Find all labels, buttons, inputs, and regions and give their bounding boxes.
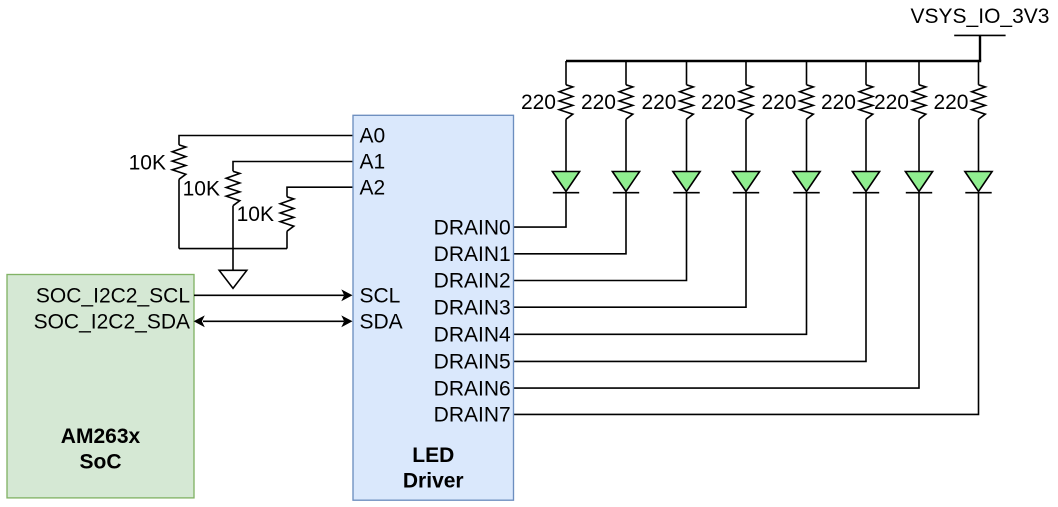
wire rail to resistor R6	[865, 61, 867, 85]
wire resistor R10 to ground rail	[232, 206, 234, 249]
ground	[219, 270, 247, 288]
resistor R5 220	[800, 85, 814, 119]
wire resistor R6 to LED D6	[865, 119, 867, 171]
resistor R4 220	[739, 85, 753, 119]
svg-text:220: 220	[641, 91, 676, 114]
wire LED D5 cathode to DRAIN4	[514, 193, 807, 335]
LED D3	[673, 172, 700, 193]
LED D7	[905, 172, 932, 193]
resistor R9 10K	[172, 145, 186, 179]
wire rail to resistor R2	[625, 61, 627, 85]
svg-text:SOC_I2C2_SDA: SOC_I2C2_SDA	[34, 311, 190, 334]
svg-text:DRAIN2: DRAIN2	[434, 270, 511, 293]
LED D2	[612, 172, 639, 193]
wire LED D8 cathode to DRAIN7	[514, 193, 979, 415]
resistor R6 220	[859, 85, 873, 119]
wire A0 to resistor R9	[179, 136, 353, 145]
svg-text:LED: LED	[412, 444, 454, 467]
wire SOC_I2C2_SDA to SDA (bidirectional)	[194, 315, 353, 327]
svg-text:220: 220	[874, 91, 909, 114]
wire LED D3 cathode to DRAIN2	[514, 193, 687, 281]
svg-text:SDA: SDA	[360, 311, 403, 334]
LED D1	[552, 172, 579, 193]
wire resistor R1 to LED D1	[565, 119, 567, 171]
LED D6	[852, 172, 879, 193]
wire A1 to resistor R10	[233, 162, 353, 172]
wire resistor R11 to ground rail	[286, 231, 288, 248]
svg-text:220: 220	[581, 91, 616, 114]
svg-text:A1: A1	[360, 151, 386, 174]
svg-text:220: 220	[761, 91, 796, 114]
svg-text:220: 220	[701, 91, 736, 114]
resistor R2 220	[619, 85, 633, 119]
svg-text:DRAIN1: DRAIN1	[434, 243, 511, 266]
resistor R10 10K	[226, 171, 240, 205]
svg-text:Driver: Driver	[403, 469, 464, 492]
svg-text:DRAIN4: DRAIN4	[434, 324, 511, 347]
svg-text:DRAIN6: DRAIN6	[434, 377, 511, 400]
wire LED D4 cathode to DRAIN3	[514, 193, 747, 308]
wire resistor R4 to LED D4	[745, 119, 747, 171]
resistor R8 220	[972, 85, 986, 119]
wire resistor R3 to LED D3	[686, 119, 688, 171]
wire power rail 3V3	[566, 60, 981, 62]
wire power stem	[979, 35, 981, 61]
wire rail to resistor R3	[686, 61, 688, 85]
svg-text:DRAIN5: DRAIN5	[434, 351, 511, 374]
svg-text:AM263x: AM263x	[61, 425, 141, 448]
svg-text:10K: 10K	[183, 178, 220, 201]
svg-text:VSYS_IO_3V3: VSYS_IO_3V3	[911, 5, 1050, 28]
resistor R1 220	[559, 85, 573, 119]
svg-text:220: 220	[933, 91, 968, 114]
svg-text:SoC: SoC	[80, 450, 122, 473]
resistor R7 220	[912, 85, 926, 119]
wire resistor R5 to LED D5	[806, 119, 808, 171]
wire rail to resistor R8	[978, 61, 980, 85]
wire SOC_I2C2_SCL to SCL	[194, 289, 353, 301]
wire resistor R9 to ground rail	[178, 179, 180, 248]
LED D8	[965, 172, 992, 193]
svg-text:DRAIN0: DRAIN0	[434, 216, 511, 239]
wire LED D2 cathode to DRAIN1	[514, 193, 627, 254]
wire resistor R8 to LED D8	[978, 119, 980, 171]
wire rail to resistor R5	[806, 61, 808, 85]
wire LED D7 cathode to DRAIN6	[514, 193, 920, 388]
svg-text:DRAIN7: DRAIN7	[434, 404, 511, 427]
wire LED D6 cathode to DRAIN5	[514, 193, 867, 362]
SoC block U2 AM263x	[7, 275, 194, 498]
wire ground rail	[179, 248, 287, 250]
wire rail to resistor R4	[745, 61, 747, 85]
svg-text:220: 220	[821, 91, 856, 114]
svg-text:SOC_I2C2_SCL: SOC_I2C2_SCL	[36, 285, 190, 308]
wire resistor R7 to LED D7	[918, 119, 920, 171]
svg-text:A2: A2	[360, 176, 386, 199]
resistor R3 220	[680, 85, 694, 119]
LED D5	[793, 172, 820, 193]
resistor R11 10K	[280, 197, 294, 231]
power bar symbol VSYS_IO_3V3	[954, 34, 1005, 36]
svg-text:SCL: SCL	[360, 285, 401, 308]
wire LED D1 cathode to DRAIN0	[514, 193, 567, 227]
wire rail to resistor R1	[565, 61, 567, 85]
wire ground stem	[232, 249, 234, 271]
wire rail to resistor R7	[918, 61, 920, 85]
wire resistor R2 to LED D2	[625, 119, 627, 171]
LED D4	[732, 172, 759, 193]
svg-text:10K: 10K	[237, 203, 274, 226]
svg-text:10K: 10K	[129, 151, 166, 174]
LED Driver block U1	[353, 115, 514, 500]
svg-text:DRAIN3: DRAIN3	[434, 296, 511, 319]
wire A2 to resistor R11	[287, 187, 353, 197]
svg-text:A0: A0	[360, 125, 386, 148]
svg-text:220: 220	[521, 91, 556, 114]
